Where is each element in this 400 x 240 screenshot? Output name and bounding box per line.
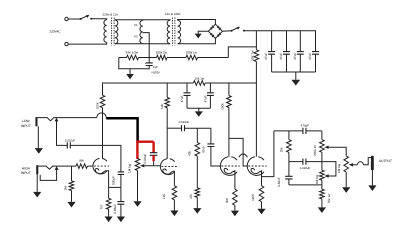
wire: HIGH jack tip with break contact — [38, 166, 76, 169]
wire: filter cap C2 bottom lead — [286, 54, 288, 72]
wire: filter cap C3 top lead — [299, 31, 301, 52]
wire: mid wire left — [289, 161, 303, 163]
ground: HIGH jack — [33, 192, 41, 198]
wire: decoupling cap at x=187.0 top lead — [186, 83, 188, 93]
wire: 1uF bottom / 39K bypass loop — [119, 58, 149, 69]
capacitor 500pF — [118, 172, 124, 175]
svg-text:1M log: 1M log — [128, 164, 132, 174]
potentiometer bass wiper — [324, 174, 328, 177]
capacitor 0.022uF coupling — [182, 125, 185, 131]
ground: LOW jack — [35, 148, 43, 154]
svg-text:0.022uF: 0.022uF — [179, 120, 190, 124]
svg-text:100k: 100k — [221, 103, 225, 110]
wire: T2 secondary bottom to bridge — [178, 38, 216, 43]
wire: 100k V2a top lead — [228, 83, 230, 96]
wire: V2b cathode lead — [260, 172, 261, 186]
svg-text:47uF: 47uF — [201, 146, 205, 153]
wire: grid feed V2a lower — [211, 147, 221, 167]
svg-text:220v & 12v: 220v & 12v — [103, 12, 119, 16]
wire: filter cap C1 top lead — [271, 31, 273, 52]
wire: 30K bottom to lower rail and tube4 plate — [255, 62, 257, 157]
wire: row 100k to 100k — [167, 57, 186, 59]
wire: tone chain upper lead — [321, 131, 323, 140]
resistor R 30K 7w — [254, 50, 259, 62]
ground: V2a cathode — [231, 211, 239, 217]
ground: filter bank — [291, 80, 300, 86]
wire: treble wiper to master — [329, 147, 347, 156]
svg-text:7k7: 7k7 — [100, 204, 104, 209]
tube V1a triode — [93, 158, 107, 173]
switch S2 throw dot — [243, 30, 245, 32]
svg-text:1k5: 1k5 — [162, 194, 166, 199]
capacitor 47uF decoupling — [207, 93, 214, 96]
potentiometer treble wiper — [324, 146, 328, 149]
wire: 20k top lead — [288, 131, 290, 140]
ground: V2b cathode — [257, 209, 265, 215]
svg-text:47uF: 47uF — [293, 53, 297, 60]
svg-text:6.82nF: 6.82nF — [277, 177, 281, 187]
svg-text:0.68uF: 0.68uF — [143, 154, 147, 164]
wire: 0.022uF to 500pF node — [70, 145, 121, 172]
wire: 75k bottom lead — [321, 199, 323, 208]
capacitor 47uF decoupling — [184, 93, 191, 96]
potentiometer 1M log master — [344, 156, 349, 172]
svg-text:220VAC: 220VAC — [49, 29, 61, 33]
wire: 47k bottom lead — [196, 197, 198, 208]
wire: bridge positive to standby switch — [222, 30, 231, 33]
svg-text:1M log: 1M log — [337, 164, 341, 174]
node: mains terminal N — [65, 42, 68, 45]
capacitor 0.022uF input — [67, 142, 70, 148]
wire hop on output lead — [357, 162, 363, 165]
wire: tone stack top right — [306, 130, 322, 132]
wire: V1b cathode lead — [173, 171, 174, 186]
wire: V2a plate to V2b grid jog — [229, 138, 248, 166]
junction arrow: LOW input node — [55, 118, 59, 122]
wire: filter cap C3 bottom lead — [299, 54, 301, 72]
wire: master pot bottom — [345, 172, 347, 187]
wire: cathode node bar — [109, 186, 121, 188]
wire: decoupling cap at x=187.0 bottom lead — [186, 95, 188, 108]
ground: 0.68uF cathode — [117, 217, 125, 223]
wire: 500pF bottom to cathode node — [120, 174, 122, 187]
potentiometer master wiper — [349, 163, 353, 166]
svg-text:OUTPUT: OUTPUT — [379, 159, 393, 163]
svg-text:43k: 43k — [188, 151, 192, 156]
wire: filter cap C4 bottom lead — [315, 54, 317, 72]
wire: mid wire right to bass wiper — [306, 162, 336, 176]
wire: tone bottom wire — [289, 184, 322, 186]
switch S2 lever — [232, 28, 239, 31]
resistor 15k 1w — [193, 81, 205, 86]
ground: divider — [193, 208, 201, 214]
switch S1 throw dot — [90, 18, 92, 20]
resistor 100k 2w — [157, 55, 168, 60]
wire: volume wiper to V1b grid — [144, 165, 161, 167]
resistor 75k 1w — [320, 189, 325, 199]
wire: rail drop to R 30K — [255, 31, 257, 50]
resistor 43k divider — [195, 142, 200, 156]
wire: LOW jack tip with break contact — [38, 118, 97, 121]
svg-text:LOW: LOW — [22, 119, 30, 123]
ground: OUTPUT jack — [368, 185, 376, 191]
capacitor 1uF — [146, 63, 153, 66]
svg-text:12v & 220v: 12v & 220v — [165, 12, 181, 16]
bridge rectifier diode D2 — [217, 26, 220, 29]
resistor 1k05 cathode V2b — [259, 186, 264, 202]
capacitor 47uF grid — [207, 144, 214, 147]
wire: coupling cap to divider — [185, 127, 211, 129]
tube V2a triode — [220, 157, 237, 176]
capacitor 0.022uF tone — [303, 159, 306, 165]
wire: V2a cathode lead — [233, 172, 235, 190]
transformer T2 secondary winding — [178, 20, 181, 44]
wire: row 39K to 100k — [139, 57, 157, 59]
wire: mid node to 6.82nF — [288, 162, 290, 177]
resistor 100k 1w — [186, 55, 198, 60]
wire: decoupling cap at x=210.4 top lead — [209, 83, 211, 93]
svg-text:0.022uF: 0.022uF — [65, 138, 76, 142]
wire: grid feed V2a upper — [210, 128, 212, 144]
wire: T1 secondary bottom to T2 primary bottom — [115, 43, 170, 45]
wire: V1a plate line — [102, 108, 104, 159]
wire: LOW jack ground stem — [37, 126, 39, 148]
wire: lower B+ rail right — [205, 82, 256, 84]
junction arrow: HIGH input node — [55, 166, 59, 170]
tube V1b triode — [160, 159, 174, 175]
switch S1 lever — [81, 16, 88, 19]
svg-text:47k: 47k — [189, 194, 193, 199]
wire: divider mid lead — [196, 156, 198, 188]
potentiometer 1M log bass — [320, 170, 325, 180]
wire: tone chain lower lead — [321, 180, 323, 189]
ground: 1M grid leak — [67, 202, 75, 208]
wire: tone stack top left — [274, 130, 303, 132]
transformer T1 secondary winding — [115, 20, 118, 44]
resistor 1M grid leak — [69, 181, 74, 191]
wire: 7k7 bottom lead — [108, 209, 110, 216]
jack: OUTPUT tip bar — [371, 156, 374, 170]
potentiometer 200k lin treble — [320, 140, 325, 153]
wire: V1b plate to coupling cap — [167, 127, 181, 129]
svg-text:HIGH: HIGH — [22, 166, 31, 170]
svg-text:47uF: 47uF — [264, 53, 268, 60]
wire: 20k to mid node — [288, 152, 290, 161]
wire: 0.68uF cathode top lead — [120, 187, 122, 201]
ground: decoupling caps — [195, 111, 203, 116]
transformer T2 core — [172, 18, 175, 46]
wire: row right end riser — [198, 57, 229, 59]
svg-text:INPUT: INPUT — [21, 171, 31, 175]
wire: 0.68uF mod to wiper node — [153, 161, 155, 166]
wire: master wiper to hop — [353, 164, 357, 166]
wire: V1a cathode lead — [106, 171, 109, 188]
svg-text:47uF: 47uF — [308, 53, 312, 60]
ground: V1b cathode — [170, 211, 178, 217]
wire: 88k to V1a grid — [88, 165, 94, 167]
ground: tone chain — [318, 207, 326, 213]
wire: terminal N to T1 primary bottom — [68, 42, 107, 44]
tube V2b triode — [247, 157, 264, 176]
wire: divider upper lead — [196, 128, 198, 142]
capacitor 0.68uF mod — [150, 153, 158, 156]
svg-text:1uF: 1uF — [153, 65, 158, 69]
wire: filter cap C1 bottom lead — [271, 54, 273, 72]
wire: decoupling cap at x=210.4 bottom lead — [209, 95, 211, 108]
potentiometer 1M log volume — [135, 159, 140, 171]
svg-text:47uF: 47uF — [180, 95, 184, 102]
svg-text:300: 300 — [225, 198, 229, 203]
wire: switch to T1 primary top — [91, 19, 107, 20]
transformer T2 primary winding — [167, 20, 170, 44]
wire: red mod wire horizontal — [136, 140, 153, 142]
wire: lower B+ rail left — [103, 83, 194, 95]
svg-text:30K 7w: 30K 7w — [250, 50, 254, 61]
wire: 300 bottom lead — [234, 205, 236, 210]
svg-text:88k: 88k — [79, 159, 84, 163]
svg-text:>100V: >100V — [151, 71, 160, 75]
wire: bridge negative to ground — [198, 31, 208, 33]
wire: T1 secondary top to T2 primary top — [115, 19, 170, 22]
wire: output jack ground stem — [371, 170, 373, 185]
svg-text:75k 1w: 75k 1w — [327, 193, 331, 204]
resistor 20k tone — [287, 140, 292, 153]
wire: decoupling ground stem — [198, 108, 200, 111]
svg-text:0.022uF: 0.022uF — [300, 166, 311, 170]
svg-text:47uF: 47uF — [204, 95, 208, 102]
wire: ground bus stem — [295, 72, 297, 80]
svg-text:15k 1w: 15k 1w — [195, 76, 205, 80]
resistor 1k5 cathode V1b — [172, 186, 177, 200]
wire hop over plate line — [97, 113, 106, 118]
resistor 10k plate V1b — [165, 98, 170, 108]
jack: LOW input tip bar — [35, 117, 37, 126]
wire: filter row feed — [228, 47, 256, 58]
svg-text:47uF: 47uF — [279, 53, 283, 60]
svg-text:10k: 10k — [160, 104, 164, 109]
wire: red mod wire below cap — [152, 155, 154, 161]
wire: 1k05 bottom lead — [261, 202, 263, 209]
resistor 100k plate V2a — [227, 96, 232, 108]
svg-text:0.68uF: 0.68uF — [113, 204, 117, 214]
node: mains terminal L — [65, 17, 68, 20]
wire: HIGH jack shunt loop — [40, 167, 56, 180]
switch S2 pole dot — [231, 30, 233, 32]
wire: red mod wire to 0.68uF — [152, 142, 154, 153]
svg-text:1M: 1M — [63, 186, 67, 191]
wire: 1M bottom lead — [71, 191, 73, 202]
wire: decoupling ground bus — [187, 107, 210, 109]
resistor 39K 1/2w — [127, 55, 139, 60]
bridge rectifier diode D4 — [217, 34, 220, 37]
wire: V2a plate line — [228, 108, 230, 157]
wire: HIGH jack ground stem — [36, 175, 38, 192]
svg-text:500pF: 500pF — [112, 176, 116, 185]
svg-text:V1: V1 — [134, 23, 138, 27]
resistor 88k grid stopper — [76, 164, 88, 169]
svg-text:INPUT: INPUT — [21, 124, 31, 128]
wire: T2 secondary top to bridge — [178, 20, 216, 25]
resistor 7k7 cathode — [106, 198, 111, 209]
capacitor C4 47uF — [312, 52, 319, 55]
bridge rectifier diode D1 — [210, 27, 213, 30]
wire: 1M grid leak top lead — [71, 166, 73, 181]
wire: tone chain mid lead — [321, 152, 323, 170]
resistor 300 cathode V2a — [233, 189, 238, 205]
wire: LOW input to 0.022uF — [57, 118, 68, 145]
bridge rectifier BR1 body — [208, 24, 222, 38]
wire: bias row — [119, 57, 127, 59]
ground: 7k7 — [105, 217, 113, 223]
ground: bias loop — [126, 74, 134, 79]
potentiometer volume wiper — [140, 164, 144, 167]
capacitor 470pF — [303, 128, 306, 134]
wire: 1k5 bottom lead — [173, 200, 175, 211]
transformer T1 primary winding — [104, 20, 107, 43]
wire: B+ rail — [244, 31, 316, 52]
ground: volume pot — [133, 201, 141, 207]
wire: V1b plate line — [166, 108, 168, 159]
wire: red mod wire to pot top — [136, 142, 138, 159]
svg-text:200k lin: 200k lin — [313, 145, 317, 156]
ground: master pot — [342, 187, 350, 193]
wire: volume pot bottom — [137, 171, 139, 202]
capacitor C1 47uF — [268, 52, 275, 55]
jack: HIGH input tip bar — [36, 165, 38, 174]
wire: bias ground stem — [129, 69, 131, 74]
transformer T1 core — [112, 18, 115, 46]
wire: terminal L to switch — [68, 18, 80, 20]
capacitor 6.82nF — [285, 176, 292, 179]
ground: bridge — [195, 34, 202, 39]
wire: output lead to jack — [363, 158, 371, 165]
wire: heater center tap to bias node — [143, 33, 149, 63]
wire: 6.82nF to bottom wire — [288, 179, 290, 185]
switch S1 pole dot — [80, 18, 82, 20]
svg-text:V2: V2 — [134, 35, 138, 39]
bridge rectifier diode D3 — [210, 33, 213, 36]
wire: thick mod wire from plate node — [106, 118, 137, 141]
capacitor C3 47uF — [297, 52, 304, 55]
wire: filter cap C2 top lead — [286, 31, 288, 52]
svg-text:20k: 20k — [279, 147, 283, 152]
svg-text:100k 1w: 100k 1w — [186, 51, 198, 55]
wire: V2a plate hop to grid feed — [239, 154, 248, 157]
wire: heater winding top stub — [142, 19, 144, 22]
wire: 7k7 top lead — [108, 187, 110, 198]
wire: 10k plate top lead — [166, 83, 168, 98]
svg-text:100k: 100k — [96, 102, 100, 109]
wire: V2b cathode to tone stack — [262, 131, 274, 177]
capacitor 0.68uF cathode — [117, 202, 124, 205]
capacitor C2 47uF — [283, 52, 290, 55]
svg-text:470pF: 470pF — [301, 123, 309, 127]
heater winding — [140, 20, 143, 43]
resistor 100k plate V1a — [100, 95, 105, 108]
svg-text:1k05: 1k05 — [251, 194, 255, 201]
wire: 0.68uF cathode bottom lead — [120, 204, 122, 216]
wire: filter bank ground bus — [272, 71, 316, 73]
resistor 47k divider — [195, 188, 200, 198]
